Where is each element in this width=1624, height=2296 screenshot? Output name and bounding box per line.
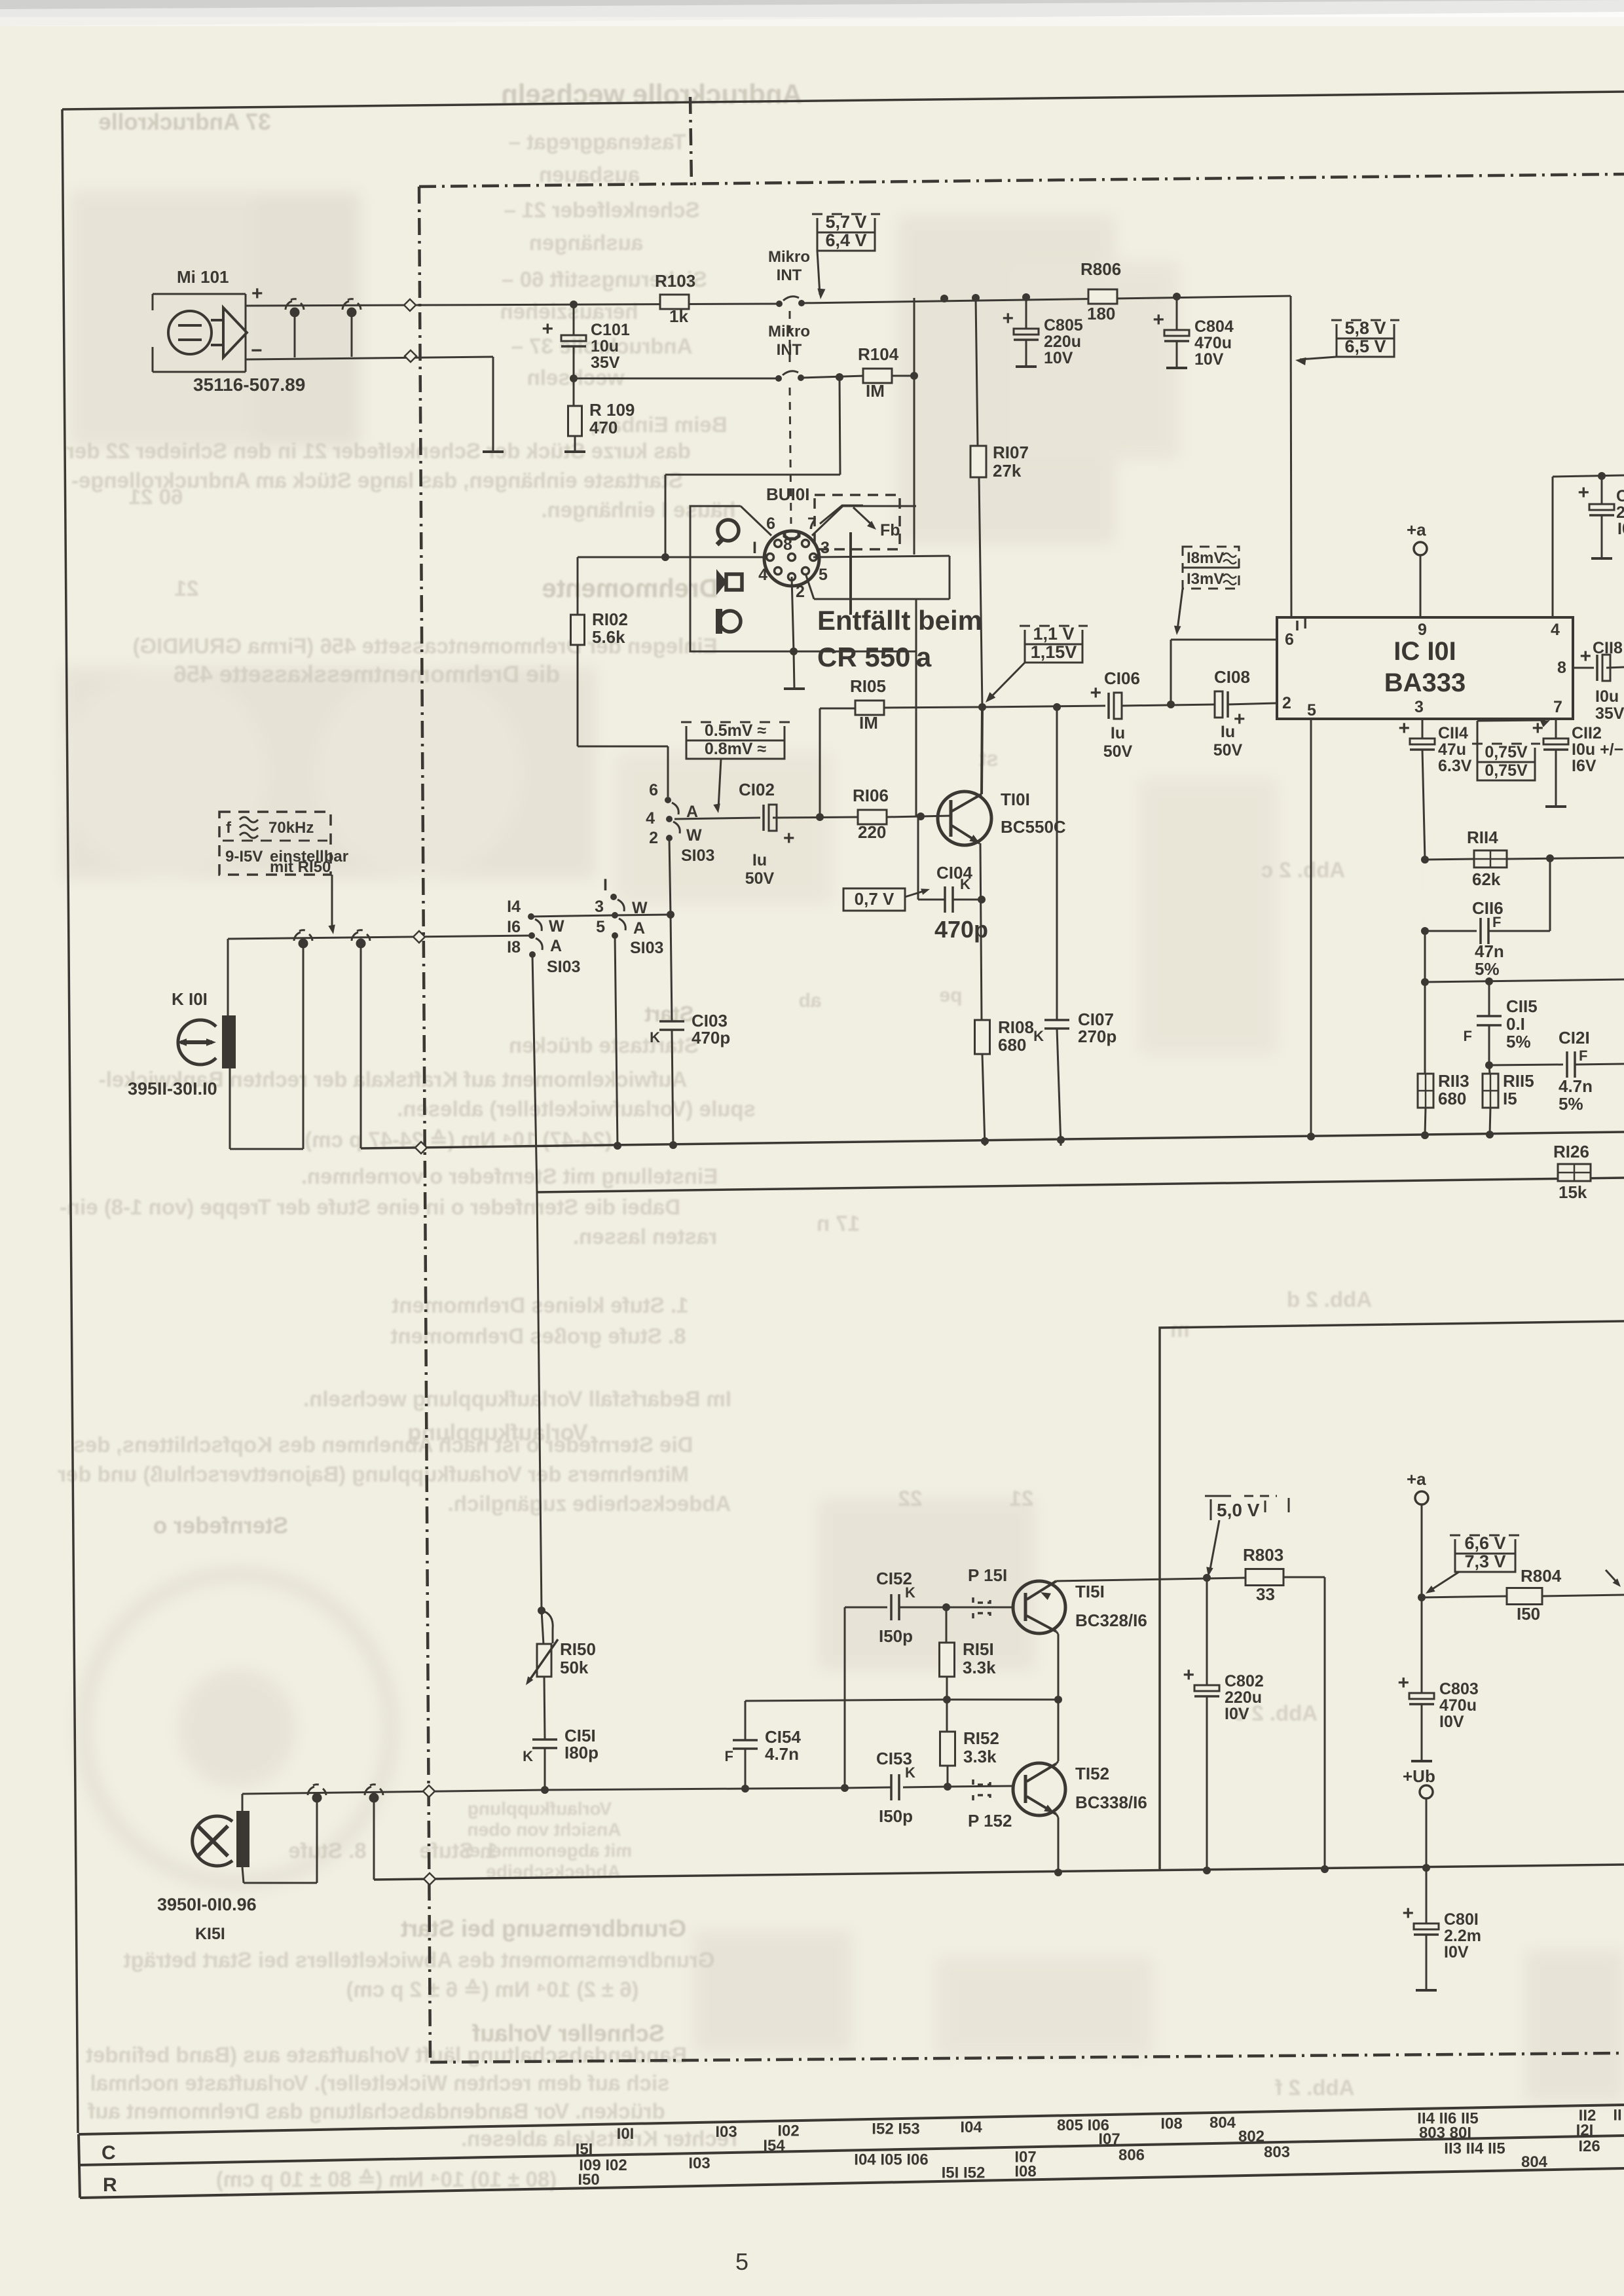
svg-text:Einlegen der Drehmomentcassett: Einlegen der Drehmomentcassette 456 (Fir…: [132, 634, 717, 658]
wire C154 top lead: [745, 1701, 747, 1740]
BU101 DIN connector circle: [764, 531, 819, 586]
svg-text:Ansicht von oben: Ansicht von oben: [468, 1819, 621, 1840]
wire 70kHz box to head wire: [331, 875, 333, 930]
svg-text:A: A: [550, 937, 562, 955]
svg-text:Mitnehmers der Vorlaufkupplung: Mitnehmers der Vorlaufkupplung (Bajonett…: [58, 1462, 689, 1486]
wire K151 to C151 node: [242, 1790, 545, 1794]
wire connector down: [303, 947, 304, 1149]
svg-text:Im Bedarfsfall Vorlaufkupplung: Im Bedarfsfall Vorlaufkupplung wechseln.: [303, 1387, 731, 1411]
trim point P152: [973, 1779, 990, 1785]
svg-text:f: f: [226, 819, 232, 837]
svg-text:50V: 50V: [745, 869, 775, 888]
measure box 5,8V / 6,5V: [1331, 319, 1399, 321]
svg-text:62k: 62k: [1472, 869, 1501, 889]
connector contact (K101 line): [299, 939, 308, 949]
svg-text:I08: I08: [1160, 2115, 1182, 2132]
svg-text:+: +: [1153, 309, 1164, 331]
BU101 DIN socket box: [690, 506, 916, 651]
node R114 left: [1421, 856, 1429, 864]
wire up to R104 input node: [840, 377, 840, 475]
wire IC pin4 up: [1552, 477, 1554, 617]
arrow 0,75V to pin7: [1477, 721, 1479, 753]
svg-text:I8mV: I8mV: [1187, 549, 1224, 567]
svg-text:RII3: RII3: [1438, 1071, 1469, 1091]
svg-text:680: 680: [998, 1035, 1026, 1055]
svg-text:C804: C804: [1194, 318, 1234, 336]
svg-text:7: 7: [1553, 698, 1562, 716]
switch Mikro INT 1: [776, 301, 783, 307]
svg-text:CII2: CII2: [1572, 724, 1602, 742]
svg-text:CR 550 a: CR 550 a: [817, 642, 932, 672]
measure box 18mV / 13mV: [1183, 547, 1239, 589]
wire2 to R104: [801, 376, 865, 378]
svg-text:0,75V: 0,75V: [1485, 743, 1528, 761]
chassis bar (C805): [1016, 365, 1037, 368]
svg-text:Drehmomente: Drehmomente: [542, 574, 718, 603]
wire mic+ to R103: [246, 304, 779, 306]
svg-text:I50: I50: [1517, 1604, 1540, 1624]
BU101 socket symbols (record / speaker / play): [718, 520, 739, 541]
svg-text:4.7n: 4.7n: [1559, 1076, 1593, 1096]
svg-text:BC328/I6: BC328/I6: [1075, 1611, 1147, 1630]
wire +a to IC pin9: [1420, 555, 1422, 617]
capacitor C153 150p: [903, 1787, 948, 1787]
wire T101 emitter down: [980, 843, 982, 1020]
svg-text:CII5: CII5: [1506, 996, 1538, 1016]
svg-text:CI08: CI08: [1214, 667, 1250, 687]
svg-text:RI5I: RI5I: [963, 1639, 994, 1659]
node bus1/C103: [669, 1141, 677, 1149]
svg-text:ab: ab: [798, 990, 821, 1011]
node C153/C152-column: [841, 1784, 849, 1792]
svg-text:27k: 27k: [993, 461, 1022, 481]
frame left border: [62, 109, 78, 2133]
svg-text:Iu: Iu: [1221, 723, 1235, 741]
svg-text:P 15I: P 15I: [968, 1565, 1007, 1585]
wire R109 bottom lead: [574, 436, 576, 452]
svg-text:+: +: [1579, 646, 1591, 667]
svg-text:35V: 35V: [1595, 704, 1624, 723]
svg-text:2.2m: 2.2m: [1444, 1927, 1481, 1945]
svg-text:TI5I: TI5I: [1075, 1582, 1105, 1601]
svg-text:häuse I einhängen.: häuse I einhängen.: [541, 498, 735, 522]
svg-text:37 Andruckrolle: 37 Andruckrolle: [98, 109, 270, 135]
node bus1/R115: [1486, 1131, 1494, 1139]
svg-text:I3mV: I3mV: [1187, 570, 1224, 588]
wire C108 to IC pin2: [1228, 703, 1277, 704]
capacitor C804 470u 10V: [1164, 330, 1189, 336]
wire S103 pin2 down: [669, 838, 671, 915]
arrow 1,1V box to node: [989, 663, 1025, 699]
connector contact 2 (mic jack): [347, 308, 357, 318]
capacitor C101 10u 35V: [561, 335, 586, 341]
wire pin4 rail right: [1553, 475, 1624, 477]
svg-text:C80I: C80I: [1444, 1910, 1479, 1929]
svg-text:I0u +/−2: I0u +/−2: [1572, 740, 1624, 759]
node bus1/S103 pin5: [614, 1142, 621, 1150]
svg-text:I50p: I50p: [879, 1806, 913, 1826]
wire C115/C121 rail: [1425, 979, 1624, 982]
svg-text:RI02: RI02: [592, 610, 628, 629]
head K101: [178, 1020, 216, 1065]
svg-text:CI06: CI06: [1104, 668, 1140, 688]
svg-text:I: I: [752, 539, 757, 557]
svg-text:F: F: [1464, 1028, 1472, 1044]
svg-text:6,5 V: 6,5 V: [1344, 337, 1386, 356]
node R150 top: [538, 1607, 545, 1614]
svg-text:I80p: I80p: [564, 1743, 599, 1762]
svg-text:+a: +a: [1407, 520, 1426, 539]
svg-text:3.3k: 3.3k: [963, 1747, 997, 1766]
svg-text:60 21: 60 21: [129, 484, 183, 509]
svg-text:22: 22: [898, 1486, 923, 1510]
svg-text:Abdeckscheibe zugänglich.: Abdeckscheibe zugänglich.: [448, 1491, 731, 1516]
svg-text:II: II: [1613, 2106, 1621, 2124]
wire top rail down to IC101 pin1: [1291, 296, 1291, 617]
node C802 top: [1203, 1574, 1211, 1582]
node crossing dash-dot (mic+): [404, 299, 416, 311]
svg-text:I50p: I50p: [879, 1626, 913, 1646]
T101 base bar: [950, 800, 953, 837]
svg-text:5: 5: [735, 2248, 748, 2275]
svg-text:−: −: [251, 340, 263, 361]
wire pin3 to C103 column: [614, 915, 671, 915]
svg-text:C101: C101: [591, 321, 630, 339]
svg-text:804: 804: [1521, 2153, 1548, 2171]
svg-text:I: I: [603, 876, 608, 894]
svg-text:mit abgenommener: mit abgenommener: [463, 1840, 632, 1861]
svg-text:F: F: [1579, 1048, 1587, 1064]
svg-text:CII8: CII8: [1593, 639, 1623, 657]
measure box 0,75V / 0,75V: [1472, 743, 1540, 745]
svg-text:I5: I5: [1503, 1089, 1517, 1108]
svg-text:+: +: [1183, 1664, 1194, 1686]
switch S103 bank B (pins 14/16/18): [528, 913, 534, 920]
svg-text:17 n: 17 n: [817, 1211, 860, 1235]
chassis bar (C8xx): [1591, 557, 1612, 560]
wire R107 bottom lead to node: [979, 477, 982, 707]
node bus1/IC pin5: [1307, 1133, 1315, 1140]
wire K151 top lead: [242, 1794, 244, 1811]
wire C107 column bottom: [1057, 1029, 1061, 1146]
svg-text:Schenkelfeder 21 –: Schenkelfeder 21 –: [504, 198, 700, 222]
node R804/C803: [1418, 1594, 1426, 1601]
svg-text:180: 180: [1087, 304, 1115, 323]
svg-text:2: 2: [1616, 503, 1624, 522]
node R104 column / wire2: [910, 372, 918, 380]
svg-text:9-I5V: 9-I5V: [225, 848, 263, 866]
svg-text:8: 8: [1557, 659, 1566, 677]
svg-text:C802: C802: [1225, 1672, 1264, 1690]
wire mic- ground: [246, 357, 493, 359]
wire C102 to R106: [773, 817, 858, 818]
svg-text:5: 5: [596, 918, 605, 936]
node C804 top: [1173, 293, 1181, 301]
svg-text:50V: 50V: [1213, 741, 1243, 759]
node bus1/R113: [1421, 1131, 1429, 1139]
wire IC pin6 left: [1171, 639, 1277, 641]
svg-text:Grundbremsmoment des Abwickelt: Grundbremsmoment des Abwickeltellers bei…: [124, 1948, 715, 1972]
svg-text:470: 470: [589, 418, 618, 437]
module box m: [1160, 1321, 1624, 1870]
wire S103 pin4 to C102: [674, 818, 760, 819]
switch S103 bank A (pins 6/4/2): [665, 797, 671, 803]
resistor R126 15k: [1558, 1164, 1591, 1181]
svg-text:806: 806: [1118, 2146, 1145, 2164]
dashed link Mikro INT: [789, 311, 791, 367]
svg-text:K: K: [523, 1748, 533, 1764]
svg-text:IM: IM: [859, 713, 878, 733]
svg-text:CI04: CI04: [936, 863, 972, 883]
svg-text:50V: 50V: [1103, 742, 1133, 761]
node R109/wire2: [570, 374, 578, 382]
svg-text:RII4: RII4: [1467, 828, 1498, 847]
svg-text:(80 ± 10) 10⁴ Nm (≙ 80 ± 10 p: (80 ± 10) 10⁴ Nm (≙ 80 ± 10 p cm): [216, 2167, 557, 2191]
svg-text:8. Stufe: 8. Stufe: [288, 1838, 366, 1863]
capacitor C801 2.2m 10V: [1426, 1868, 1428, 1923]
svg-text:spule (Vorlaufwickelteller) ab: spule (Vorlaufwickelteller) ablesen.: [397, 1097, 756, 1121]
arrow 0,7V to base column: [905, 890, 926, 897]
capacitor C115 0.1 5%: [1488, 981, 1490, 1016]
wire connector2 down: [351, 316, 353, 357]
svg-text:220u: 220u: [1044, 333, 1081, 351]
connector contact (K151 line 2): [369, 1793, 379, 1803]
wire R151/R152 node to transistor column: [947, 1699, 1058, 1701]
svg-text:4: 4: [646, 809, 655, 828]
svg-text:drücken. Vor Bandendabschaltun: drücken. Vor Bandendabschaltung das Dreh…: [87, 2099, 665, 2123]
measure box 5,0V: [1205, 1495, 1231, 1497]
svg-text:CII6: CII6: [1472, 898, 1504, 918]
frame top border: [62, 92, 1624, 109]
bleed-through mirrored text: [58, 79, 1372, 2191]
node crossing dash-dot (mic-): [405, 350, 416, 362]
svg-text:pe: pe: [939, 985, 962, 1006]
svg-text:4: 4: [1551, 621, 1560, 639]
svg-text:10V: 10V: [1194, 350, 1224, 369]
chassis boundary dash-dot top stub: [690, 97, 692, 185]
svg-text:+: +: [251, 283, 263, 304]
svg-text:R 109: R 109: [589, 400, 635, 420]
svg-text:Einstellung mit Sternfeder o v: Einstellung mit Sternfeder o vornehmen.: [301, 1164, 718, 1188]
connector contact (K151 line): [312, 1793, 322, 1803]
svg-text:m: m: [1170, 1317, 1189, 1341]
svg-text:R104: R104: [858, 344, 899, 364]
svg-text:K: K: [650, 1029, 660, 1046]
svg-text:R803: R803: [1243, 1545, 1283, 1565]
svg-text:R804: R804: [1521, 1566, 1562, 1586]
measure box 0,7V: [843, 888, 905, 911]
wire to T152 base: [948, 1786, 1012, 1787]
node crossing dash-dot (head wire): [413, 931, 425, 943]
wire down to S103 pin6: [667, 746, 669, 797]
wire mic line to corner (top rail): [802, 296, 1291, 303]
node crossing dash-dot (K151 wire): [423, 1785, 435, 1797]
svg-text:+Ub: +Ub: [1403, 1766, 1435, 1786]
svg-text:C805: C805: [1044, 316, 1083, 335]
svg-text:IM: IM: [866, 381, 885, 401]
svg-text:RI26: RI26: [1553, 1142, 1589, 1161]
T151 base bar: [1024, 1593, 1027, 1621]
node busT/T152 emitter: [1054, 1868, 1062, 1876]
dashed link Mikro INT to BU101: [790, 388, 791, 524]
chassis bar (mic-): [483, 450, 504, 453]
svg-text:I26: I26: [1578, 2138, 1600, 2155]
node bus1/C107: [1057, 1136, 1065, 1144]
svg-text:Abb. 2 c: Abb. 2 c: [1261, 858, 1345, 882]
resistor R109 470: [568, 406, 582, 436]
wire node to C106: [982, 706, 1105, 707]
svg-text:I03: I03: [688, 2155, 710, 2172]
svg-text:1. Stufe kleines Drehmoment: 1. Stufe kleines Drehmoment: [392, 1293, 689, 1317]
capacitor C803 470u 10V: [1421, 1597, 1423, 1693]
T152 base bar: [1024, 1775, 1027, 1803]
node R114 right: [1546, 854, 1554, 862]
wire R102 top lead: [577, 557, 579, 615]
supply node +a (lower): [1415, 1491, 1428, 1504]
svg-text:35116-507.89: 35116-507.89: [193, 374, 305, 395]
svg-text:70kHz: 70kHz: [268, 819, 314, 837]
svg-text:+: +: [1402, 1903, 1414, 1924]
node C805 top: [1022, 293, 1030, 301]
svg-text:+: +: [1398, 718, 1410, 739]
svg-text:680: 680: [1438, 1089, 1466, 1108]
capacitor C154 4.7n: [733, 1739, 758, 1741]
resistor R152 3.3k: [946, 1700, 948, 1732]
wire C101 to node: [573, 346, 575, 378]
svg-text:INT: INT: [777, 341, 802, 359]
chassis bar (C803): [1411, 1760, 1432, 1762]
svg-text:CI2I: CI2I: [1559, 1028, 1590, 1048]
svg-text:+: +: [783, 828, 795, 849]
resistor R108 680: [975, 1020, 990, 1054]
svg-text:+: +: [1002, 308, 1014, 329]
node bus T crossing dash-dot: [424, 1873, 435, 1885]
svg-text:6: 6: [766, 515, 775, 533]
svg-text:1k: 1k: [669, 306, 688, 326]
node C101 top: [570, 301, 578, 308]
svg-text:I04 I05 I06: I04 I05 I06: [854, 2151, 928, 2168]
wire IC pin8 to C118: [1573, 667, 1594, 669]
wire S103 pin14 to pin3: [531, 915, 614, 917]
wire pin3 corner down: [949, 556, 951, 599]
wire K101 top lead: [227, 939, 229, 1015]
chassis bar (R109): [564, 450, 585, 453]
node C107 top: [1053, 703, 1061, 711]
svg-text:die Drehmomentmesskassette 456: die Drehmomentmesskassette 456: [174, 661, 560, 687]
svg-text:4: 4: [758, 566, 767, 584]
resistor R803 33: [1246, 1569, 1283, 1586]
svg-text:2: 2: [649, 829, 658, 847]
svg-text:804: 804: [1209, 2114, 1236, 2132]
svg-text:0.I: 0.I: [1506, 1014, 1525, 1034]
svg-text:803: 803: [1264, 2143, 1290, 2161]
wire T151 emitter rail to R803: [1056, 1578, 1246, 1581]
node R151/R152: [943, 1696, 951, 1704]
wire R107 top lead: [976, 298, 978, 446]
svg-text:5,0 V: 5,0 V: [1217, 1500, 1260, 1520]
wire R106 to T101 base: [887, 816, 951, 817]
svg-text:I04: I04: [960, 2119, 982, 2136]
node wire2: [836, 373, 843, 381]
svg-text:I0u: I0u: [1595, 687, 1619, 706]
svg-text:1,1 V: 1,1 V: [1033, 624, 1074, 644]
resistor R115 15: [1489, 1065, 1490, 1074]
wire C152 to T151 base: [899, 1607, 1012, 1609]
measure box 1,1V / 1,15V: [1020, 625, 1088, 627]
svg-text:10u: 10u: [591, 337, 619, 355]
wire C121 right: [1575, 1064, 1624, 1065]
wire C804 top lead: [1176, 297, 1178, 330]
svg-text:5%: 5%: [1506, 1032, 1531, 1051]
switch Mikro INT 2: [775, 375, 782, 382]
svg-text:CI52: CI52: [876, 1569, 912, 1588]
resistor R806 180: [1088, 289, 1117, 304]
node busT/C802: [1203, 1867, 1211, 1874]
svg-text:2: 2: [1282, 694, 1291, 712]
wire connector2 down: [373, 1802, 375, 1880]
svg-text:mit RI50: mit RI50: [270, 858, 331, 876]
svg-text:RI52: RI52: [963, 1728, 999, 1748]
wire C805 top lead: [1025, 297, 1027, 329]
node R151 top: [942, 1603, 950, 1611]
svg-text:Iu: Iu: [752, 851, 767, 869]
node C106/C108: [1167, 701, 1175, 708]
svg-text:sich auf dem rechten Wickeltel: sich auf dem rechten Wickelteller). Vorl…: [90, 2071, 670, 2095]
arrow 5,7V box to Mikro INT node: [817, 251, 820, 295]
svg-text:TI52: TI52: [1075, 1764, 1109, 1783]
svg-text:5,7 V: 5,7 V: [825, 212, 866, 232]
wire C154 top to node: [745, 1700, 947, 1701]
capacitor C106 1u 50V: [1107, 693, 1110, 719]
svg-text:(6 ± 2) 10⁴ Nm (≙ 6 ± 2 p cm): (6 ± 2) 10⁴ Nm (≙ 6 ± 2 p cm): [346, 1977, 639, 2001]
wire BU101 pin3 right: [813, 556, 950, 557]
transistor T152 BC338/16: [1013, 1763, 1065, 1815]
wire K101 to S103 pin16: [228, 936, 532, 939]
svg-text:35V: 35V: [591, 354, 620, 372]
transistor T101 BC550C: [938, 792, 991, 845]
arrow 6,6V to node: [1430, 1572, 1459, 1591]
node bus1/R108: [981, 1137, 989, 1145]
svg-text:33: 33: [1256, 1584, 1275, 1604]
resistor R106 220: [858, 810, 887, 824]
svg-text:W: W: [686, 826, 702, 845]
svg-text:21: 21: [1010, 1486, 1034, 1510]
wire R102 bottom lead: [577, 645, 579, 746]
svg-text:P 152: P 152: [968, 1811, 1012, 1831]
svg-text:BC338/I6: BC338/I6: [1075, 1793, 1147, 1812]
chassis bar (C801): [1416, 1989, 1437, 1992]
svg-text:SI03: SI03: [630, 939, 663, 957]
svg-text:6: 6: [1285, 630, 1294, 649]
wire base node down to C104: [917, 816, 919, 900]
wire S103 pin18 down to bus2: [532, 955, 537, 1192]
svg-text:47u: 47u: [1438, 740, 1466, 759]
svg-text:I6: I6: [507, 918, 521, 936]
svg-text:das kurze Stück der Schenkelfe: das kurze Stück der Schenkelfeder 21 in …: [66, 439, 691, 463]
node T101 collector / R107: [978, 703, 986, 711]
svg-text:270p: 270p: [1078, 1027, 1116, 1046]
wire +Ub to bus T: [1426, 1798, 1428, 1868]
wire R803 down to bus T: [1324, 1577, 1326, 1869]
switch S103 bank C (pins 1/3/5): [610, 894, 617, 900]
svg-text:RI50: RI50: [560, 1639, 596, 1659]
70kHz adjustment dashed box: [219, 812, 331, 875]
svg-text:470p: 470p: [934, 916, 988, 943]
wire across to R104 node column: [665, 474, 840, 476]
wire R113 column: [1424, 931, 1426, 1074]
svg-text:Tastenaggregat –: Tastenaggregat –: [509, 130, 686, 154]
svg-text:3: 3: [595, 898, 604, 916]
